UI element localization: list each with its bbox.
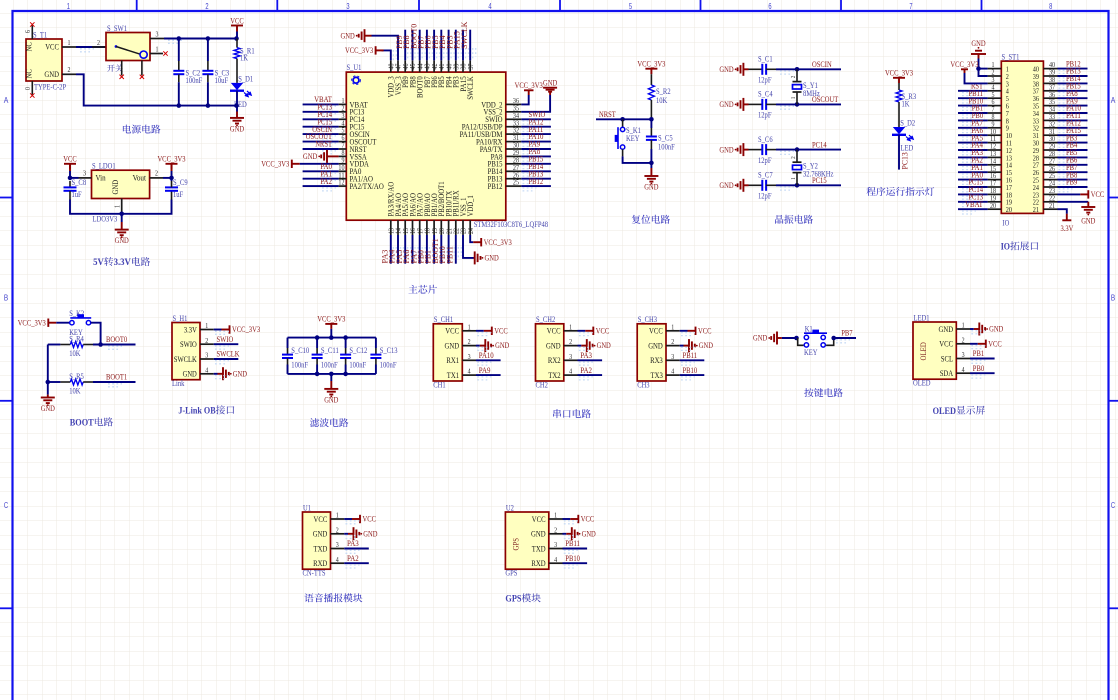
ST1 pin 29 stub xyxy=(1043,149,1057,151)
U1 pin 30 (PA9/TX) xyxy=(506,148,522,150)
ST1 pin 22 stub xyxy=(1043,201,1057,203)
svg-text:S_C10: S_C10 xyxy=(291,346,309,355)
module U2 GPS xyxy=(505,512,548,569)
wire and net label SWIO xyxy=(521,118,551,120)
label 程序运行指示灯 xyxy=(866,187,934,196)
svg-text:2: 2 xyxy=(790,76,797,79)
wire and net label PA3 at U1 pin 3 xyxy=(344,548,369,550)
wire and net label PA1 xyxy=(303,178,339,180)
wire and net label OSCIN xyxy=(303,133,339,135)
svg-text:12pF: 12pF xyxy=(758,76,772,85)
T1 pin 0 no-connect bottom xyxy=(31,81,33,95)
ST1 pin 40 stub xyxy=(1043,68,1057,70)
svg-text:GND: GND xyxy=(111,180,120,195)
wire and rotated net label PA4 xyxy=(397,235,399,264)
svg-text:PA2: PA2 xyxy=(320,177,332,186)
label 按键电路 xyxy=(804,388,842,397)
ST1 pin 37 stub xyxy=(1043,90,1057,92)
T1 pin 2 GND xyxy=(62,73,76,75)
wire and net label PB6 (ST1 pin 27) xyxy=(1058,164,1088,166)
svg-text:PB7: PB7 xyxy=(841,329,852,338)
svg-text:GND: GND xyxy=(543,79,557,88)
svg-text:GND: GND xyxy=(648,341,663,350)
svg-text:SWCLK: SWCLK xyxy=(174,355,197,364)
svg-text:GND: GND xyxy=(44,70,59,79)
wire and rotated net label PB4 xyxy=(448,30,450,61)
svg-text:4: 4 xyxy=(468,367,471,376)
svg-text:S_R2: S_R2 xyxy=(656,87,671,96)
wire T1 VCC to SW1 xyxy=(76,46,106,48)
svg-text:3: 3 xyxy=(336,540,339,549)
svg-text:PB12: PB12 xyxy=(529,177,544,186)
svg-text:4: 4 xyxy=(671,367,674,376)
svg-text:RX2: RX2 xyxy=(548,356,561,365)
svg-text:TXD: TXD xyxy=(314,544,328,553)
svg-text:4: 4 xyxy=(554,555,557,564)
svg-text:1: 1 xyxy=(671,322,674,331)
svg-text:A: A xyxy=(4,96,9,105)
power VCC at LED1 pin 2 xyxy=(970,343,978,345)
U1 pin 10 (PA0) xyxy=(339,170,347,172)
wire and net label PA10 at S_CH1 pin 3 xyxy=(476,359,501,361)
wire and rotated net label PA3 xyxy=(390,235,392,264)
svg-text:3: 3 xyxy=(346,2,350,11)
wire VCC to LDO Vin xyxy=(70,177,79,179)
svg-text:S_D1: S_D1 xyxy=(238,74,253,83)
ground GND at S_C7 xyxy=(742,179,744,192)
label 电源电路 xyxy=(123,125,161,134)
wire and net label PC13 (ST1 pin 19) xyxy=(958,201,988,203)
wire and net label PB7 xyxy=(834,337,856,339)
wire and rotated net label PB11 xyxy=(455,235,457,264)
svg-text:NRST: NRST xyxy=(599,110,616,119)
junction top rail C3 xyxy=(206,36,211,41)
wire and net label PB11 at U2 pin 3 xyxy=(563,548,588,550)
svg-text:VCC_3V3: VCC_3V3 xyxy=(950,60,978,69)
label 滤波电路 xyxy=(310,418,348,427)
wire D2 to PC13 xyxy=(898,135,900,170)
svg-text:Vin: Vin xyxy=(96,174,107,183)
wire K1 to C5 bottom xyxy=(623,156,652,163)
ST1 pin 15 stub xyxy=(988,171,1002,173)
U1 pin 47 (VSS_3) xyxy=(397,60,399,72)
svg-text:STM32F103C8T6_LQFP48: STM32F103C8T6_LQFP48 xyxy=(474,220,548,229)
ground GND LDO xyxy=(121,214,123,222)
svg-text:GND: GND xyxy=(989,325,1003,334)
U1 pin 32 (PA11/USB/DM) xyxy=(506,133,522,135)
net label NRST and wire xyxy=(596,118,651,120)
U1 pin 33 (PA12/USB/DP) xyxy=(506,126,522,128)
wire and net label PA2 (ST1 pin 14) xyxy=(958,164,988,166)
wire and net label PC14 xyxy=(303,118,339,120)
capacitor C9 1uF xyxy=(171,191,173,200)
LDO pin 1 GND xyxy=(121,199,123,214)
junction C5-K1-GND xyxy=(649,161,654,166)
ST1 pin 3 stub xyxy=(988,82,1002,84)
svg-text:GND: GND xyxy=(324,396,338,405)
svg-text:5: 5 xyxy=(629,2,633,11)
wire and net label VBAT (ST1 pin 20) xyxy=(958,208,988,210)
wire and net label PB3 (ST1 pin 30) xyxy=(1058,142,1088,144)
junction bottom rail C3 xyxy=(206,103,211,108)
U1 pin 24 (VDD_1) xyxy=(469,220,471,235)
U1 pin 14 (PA4/AO) xyxy=(397,220,399,235)
svg-text:BOOT0: BOOT0 xyxy=(106,335,127,344)
wire and net label PA1 (ST1 pin 15) xyxy=(958,171,988,173)
ST1 pin 13 stub xyxy=(988,156,1002,158)
U1 pin 18 (PB0/AO) xyxy=(426,220,428,235)
module CH3 serial port 3 xyxy=(637,324,666,381)
svg-text:B: B xyxy=(4,294,8,303)
label 语音播报模块 xyxy=(304,593,362,602)
svg-text:5V: 5V xyxy=(93,257,104,268)
svg-text:2: 2 xyxy=(569,337,572,346)
wire and net label PA2 xyxy=(303,185,339,187)
crystal Y2 32.768KHz xyxy=(796,150,798,163)
U1 pin 48 (VDD_3) xyxy=(390,60,392,72)
svg-text:KEY: KEY xyxy=(804,348,818,357)
wire and net label PB10 (ST1 pin 6) xyxy=(958,105,988,107)
svg-text:GND: GND xyxy=(303,152,317,161)
svg-text:NC: NC xyxy=(25,69,34,79)
svg-text:3: 3 xyxy=(205,351,208,360)
wire and rotated net label PB5 xyxy=(440,30,442,61)
svg-text:VCC: VCC xyxy=(314,515,328,524)
svg-text:6: 6 xyxy=(768,2,772,11)
junction K2-BOOT0 xyxy=(98,342,103,347)
ST1 pin 18 stub xyxy=(988,193,1002,195)
ground GND at S_CH1 pin 2 xyxy=(476,345,480,347)
svg-text:8: 8 xyxy=(1049,2,1053,11)
connector ST1 (IO header) xyxy=(1001,61,1043,213)
svg-text:VCC_3V3: VCC_3V3 xyxy=(885,69,913,78)
svg-text:GND: GND xyxy=(230,125,244,134)
ST1 pin 32 stub xyxy=(1043,127,1057,129)
wire and rotated net label PB8 xyxy=(412,30,414,61)
svg-text:PB1: PB1 xyxy=(973,349,984,358)
U1 pin 25 (PB12) xyxy=(506,185,522,187)
junction key left xyxy=(794,336,799,341)
wire bottom rail to C9 xyxy=(122,200,172,214)
wire and net label PA4 (ST1 pin 12) xyxy=(958,149,988,151)
svg-text:1: 1 xyxy=(468,322,471,331)
svg-text:3: 3 xyxy=(569,352,572,361)
wire and net label PB14 (ST1 pin 38) xyxy=(1058,82,1088,84)
wire and net label PA9 xyxy=(521,148,551,150)
power VCC at S_CH1 pin 1 xyxy=(476,330,484,332)
wire and net label PA9 (ST1 pin 35) xyxy=(1058,105,1088,107)
wire T1 GND to bottom rail xyxy=(76,74,237,105)
U1 pin 40 (PB4) xyxy=(448,60,450,72)
power VCC at U2 pin 1 xyxy=(563,518,571,520)
svg-text:Link: Link xyxy=(172,379,185,388)
wire and rotated net label BOOT0 xyxy=(419,30,421,61)
wire and net label PA2 at U1 pin 4 xyxy=(344,562,369,564)
svg-text:GND: GND xyxy=(485,254,499,263)
svg-text:GND: GND xyxy=(341,31,355,40)
svg-text:S_CH2: S_CH2 xyxy=(536,315,555,324)
wire and net label PB10 at S_CH3 pin 4 xyxy=(680,374,705,376)
svg-text:LED1: LED1 xyxy=(914,313,930,322)
svg-text:PA3: PA3 xyxy=(580,351,592,360)
svg-text:1: 1 xyxy=(67,2,71,11)
svg-text:S_H1: S_H1 xyxy=(173,314,188,323)
label 晶振电路 xyxy=(775,215,813,224)
U1 pin 13 (PA3/RX/AO) xyxy=(390,220,392,235)
wire and net label PA15 (ST1 pin 31) xyxy=(1058,134,1088,136)
svg-text:K1: K1 xyxy=(805,324,813,333)
svg-text:2: 2 xyxy=(155,169,158,178)
wire K2 to BOOT0 net xyxy=(91,323,101,345)
wire and net label PA12 (ST1 pin 32) xyxy=(1058,127,1088,129)
ground GND at U1 VSSA xyxy=(327,155,339,157)
svg-text:VCC: VCC xyxy=(63,155,77,164)
svg-text:CH3: CH3 xyxy=(637,380,649,389)
wire and net label VBAT xyxy=(303,103,339,105)
ST1 pin 4 stub xyxy=(988,90,1002,92)
SW1 pin 3 xyxy=(150,38,164,40)
svg-text:VCC: VCC xyxy=(596,327,610,336)
svg-text:TX3: TX3 xyxy=(651,371,663,380)
wire and net label PB14 xyxy=(521,170,551,172)
wire and net label NRST xyxy=(303,148,339,150)
ST1 pin 19 stub xyxy=(988,201,1002,203)
svg-text:S_CH3: S_CH3 xyxy=(638,315,657,324)
svg-text:1: 1 xyxy=(790,97,797,100)
svg-text:100nF: 100nF xyxy=(291,361,308,370)
svg-text:S_D2: S_D2 xyxy=(900,118,915,127)
svg-text:100nF: 100nF xyxy=(321,361,338,370)
capacitor S_C4 12pF xyxy=(749,103,763,105)
svg-text:SWCLK: SWCLK xyxy=(217,350,240,359)
capacitor C3 10uF xyxy=(207,39,209,62)
wire and rotated net label PB9 xyxy=(404,30,406,61)
wire and rotated net label PB3 xyxy=(455,30,457,61)
svg-text:GND: GND xyxy=(41,404,55,413)
svg-text:OLED: OLED xyxy=(933,406,956,417)
U1 pin 42 (PB6) xyxy=(433,60,435,72)
svg-text:12pF: 12pF xyxy=(758,111,772,120)
junction filter rail C11 xyxy=(315,335,320,340)
microcontroller U1 STM32F103C8T6 xyxy=(346,72,506,220)
wire SW1 pin3 to VCC rail xyxy=(164,38,237,40)
ground GND at U2 pin 2 xyxy=(563,533,567,535)
svg-text:GND: GND xyxy=(313,530,328,539)
svg-text:S_C4: S_C4 xyxy=(758,90,773,99)
svg-text:OSCIN: OSCIN xyxy=(812,60,832,69)
wire and net label PA0 (ST1 pin 16) xyxy=(958,179,988,181)
ground GND at S_C6 xyxy=(742,143,744,156)
wire and net label PA3 at S_CH2 pin 3 xyxy=(578,359,603,361)
U1 pin 21 (PB10/TX) xyxy=(448,220,450,235)
ST1 pin 7 stub xyxy=(988,112,1002,114)
svg-text:IO: IO xyxy=(1001,242,1011,253)
wire and net label SWCLK at S_H1 pin 3 xyxy=(214,358,239,360)
U1 pin 22 (PB11/RX) xyxy=(455,220,457,235)
svg-text:VCC_3V3: VCC_3V3 xyxy=(157,155,185,164)
svg-text:1: 1 xyxy=(156,44,159,53)
svg-text:VCC_3V3: VCC_3V3 xyxy=(484,238,512,247)
junction key right xyxy=(831,336,836,341)
resistor R1 1K xyxy=(236,39,238,48)
svg-text:GND: GND xyxy=(753,334,767,343)
svg-text:32.768KHz: 32.768KHz xyxy=(803,169,834,178)
svg-text:20: 20 xyxy=(1006,205,1012,214)
resistor R5 10K xyxy=(48,381,61,383)
wire and net label SWIO at S_H1 pin 2 xyxy=(214,343,239,345)
wire and net label PC15 xyxy=(776,184,841,186)
svg-text:1: 1 xyxy=(554,511,557,520)
svg-text:PA2: PA2 xyxy=(347,554,359,563)
ST1 pin 12 stub xyxy=(988,149,1002,151)
svg-text:VCC: VCC xyxy=(363,515,377,524)
svg-text:VCC_3V3: VCC_3V3 xyxy=(345,46,373,55)
svg-text:GND: GND xyxy=(115,236,129,245)
svg-text:PA2: PA2 xyxy=(580,366,592,375)
wire and net label PC14 (ST1 pin 18) xyxy=(958,193,988,195)
junction Vout C9 xyxy=(169,176,174,181)
svg-text:10K: 10K xyxy=(656,96,667,105)
junction R5 left xyxy=(46,380,51,385)
ST1 pin 6 stub xyxy=(988,105,1002,107)
junction filter rail C12 xyxy=(343,335,348,340)
junction NRST-K1 xyxy=(620,117,625,122)
svg-text:PB12: PB12 xyxy=(488,182,503,191)
svg-text:1uF: 1uF xyxy=(72,190,83,199)
svg-text:SWIO: SWIO xyxy=(217,335,234,344)
ST1 pin 8 stub xyxy=(988,119,1002,121)
svg-text:GND: GND xyxy=(363,530,377,539)
ST1 pin 9 stub xyxy=(988,127,1002,129)
U1 pin 45 (PB8) xyxy=(412,60,414,72)
U1 pin 41 (PB5) xyxy=(440,60,442,72)
wire and net label PB13 (ST1 pin 39) xyxy=(1058,75,1088,77)
wire and net label PB5 (ST1 pin 28) xyxy=(1058,156,1088,158)
ST1 pin 10 stub xyxy=(988,134,1002,136)
svg-text:24: 24 xyxy=(466,228,475,234)
svg-text:GPS: GPS xyxy=(510,538,520,551)
wire and net label OSCOUT xyxy=(303,141,339,143)
wire and rotated net label PA7 xyxy=(419,235,421,264)
svg-text:3: 3 xyxy=(962,350,965,359)
U1 pin 36 (VDD_2) xyxy=(506,103,522,105)
svg-text:4: 4 xyxy=(488,2,492,11)
svg-text:GND: GND xyxy=(644,183,658,192)
svg-text:2: 2 xyxy=(671,337,674,346)
ST1 pin 24 stub xyxy=(1043,186,1057,188)
svg-text:3.3V: 3.3V xyxy=(1061,224,1074,233)
U1 pin 15 (PA5/AO) xyxy=(404,220,406,235)
ground GND at S_C1 xyxy=(742,63,744,76)
junction filter VCC xyxy=(329,335,334,340)
wire and net label PA9 at S_CH1 pin 4 xyxy=(476,374,501,376)
wire and net label PB7 (ST1 pin 26) xyxy=(1058,171,1088,173)
wire and rotated net label PA15 xyxy=(462,30,464,61)
svg-text:PA9: PA9 xyxy=(479,366,491,375)
ST1 pin 26 stub xyxy=(1043,171,1057,173)
svg-text:1K: 1K xyxy=(902,100,910,109)
svg-text:SWCLK: SWCLK xyxy=(466,76,475,100)
svg-text:3: 3 xyxy=(554,540,557,549)
U1 pin 26 (PB13) xyxy=(506,178,522,180)
svg-text:100nF: 100nF xyxy=(349,361,366,370)
svg-text:12pF: 12pF xyxy=(758,192,772,201)
U1 pin 5 (OSCIN) xyxy=(339,133,347,135)
svg-text:Vout: Vout xyxy=(133,174,147,183)
wire and rotated net label PB0 xyxy=(426,235,428,264)
U1 pin 27 (PB14) xyxy=(506,170,522,172)
svg-text:BOOT: BOOT xyxy=(70,418,94,429)
ground GND at U1 VSS_2 xyxy=(521,95,550,112)
SW1 pin 1 no-connect xyxy=(150,53,163,55)
module LED1 OLED display xyxy=(913,322,956,379)
svg-text:VCC: VCC xyxy=(988,339,1002,348)
U1 pin 43 (PB7) xyxy=(426,60,428,72)
U1 pin 31 (PA10/RX) xyxy=(506,141,522,143)
U1 pin 20 (PB2/BOOT1) xyxy=(440,220,442,235)
wire and net label PB1 (ST1 pin 7) xyxy=(958,112,988,114)
ST1 pin 2 stub xyxy=(988,75,1002,77)
svg-text:S_ST1: S_ST1 xyxy=(1002,52,1020,61)
crystal Y1 8MHz xyxy=(796,69,798,81)
U1 pin 16 (PA6/AO) xyxy=(412,220,414,235)
svg-text:S_C6: S_C6 xyxy=(758,135,773,144)
wire D1 to bottom rail xyxy=(236,91,238,106)
wire and net label PC13 xyxy=(303,111,339,113)
junction VCC C8 xyxy=(68,176,73,181)
ground GND at U1 pin 2 xyxy=(344,533,348,535)
ground GND at S_H1 pin 4 xyxy=(214,373,218,375)
svg-text:2: 2 xyxy=(790,156,797,159)
ST1 pin 28 stub xyxy=(1043,156,1057,158)
wire and net label PA5 (ST1 pin 11) xyxy=(958,142,988,144)
svg-text:VBAT: VBAT xyxy=(965,200,983,209)
ST1 pin 20 stub xyxy=(988,208,1002,210)
svg-text:GND: GND xyxy=(719,65,733,74)
svg-text:VCC: VCC xyxy=(1091,190,1105,199)
wire and net label PA2 at S_CH2 pin 4 xyxy=(578,374,603,376)
svg-text:PA10: PA10 xyxy=(479,351,494,360)
LED D1 xyxy=(236,59,238,83)
svg-text:PB11: PB11 xyxy=(683,351,698,360)
capacitor C2 100nF xyxy=(178,39,180,62)
svg-text:4: 4 xyxy=(336,555,339,564)
wire and net label PA0 xyxy=(303,170,339,172)
svg-text:S_SW1: S_SW1 xyxy=(107,24,127,33)
junction PC15-Y2 xyxy=(795,183,800,188)
svg-text:U1: U1 xyxy=(303,503,311,512)
wire and net label PB1 at LED1 pin 3 xyxy=(970,358,995,360)
svg-text:GND: GND xyxy=(699,341,713,350)
svg-text:GND: GND xyxy=(495,341,509,350)
svg-text:PB9: PB9 xyxy=(1066,178,1077,187)
svg-text:PC14: PC14 xyxy=(812,140,827,149)
wire and net label PA10 xyxy=(521,141,551,143)
ST1 pin 33 stub xyxy=(1043,119,1057,121)
svg-text:C: C xyxy=(1111,501,1115,510)
wire and rotated net label PB7 xyxy=(426,30,428,61)
svg-text:GND: GND xyxy=(546,341,561,350)
ground GND at S_CH3 pin 2 xyxy=(680,345,684,347)
wire and net label PB12 (ST1 pin 40) xyxy=(1058,68,1088,70)
svg-text:2: 2 xyxy=(962,335,965,344)
wire and net label OSCIN xyxy=(776,68,841,70)
wire and rotated net label PA6 xyxy=(412,235,414,264)
ground GND power circuit xyxy=(230,117,244,119)
svg-text:10uF: 10uF xyxy=(215,76,229,85)
wire and rotated net label PB6 xyxy=(433,30,435,61)
pushbutton K1 KEY (reset) xyxy=(622,119,624,127)
